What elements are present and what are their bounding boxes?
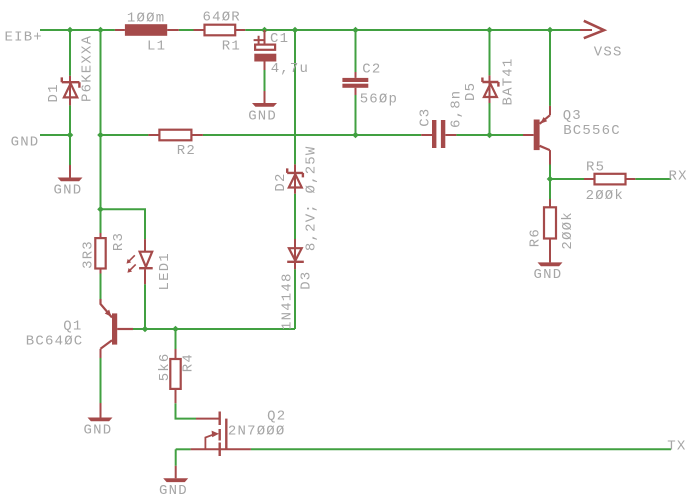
svg-text:1N4148: 1N4148	[280, 272, 296, 330]
svg-text:BC64ØC: BC64ØC	[26, 333, 84, 349]
svg-text:R5: R5	[586, 159, 605, 175]
svg-text:R3: R3	[111, 232, 127, 251]
svg-text:3R3: 3R3	[81, 240, 97, 269]
svg-text:EIB+: EIB+	[5, 30, 43, 46]
svg-text:GND: GND	[11, 135, 40, 151]
svg-text:8,2V; Ø,25W: 8,2V; Ø,25W	[304, 145, 320, 251]
svg-text:GND: GND	[248, 108, 277, 124]
svg-text:GND: GND	[84, 422, 113, 438]
svg-text:RX: RX	[669, 168, 688, 184]
svg-text:C3: C3	[417, 108, 433, 127]
svg-text:GND: GND	[534, 267, 563, 283]
svg-text:D3: D3	[298, 271, 314, 290]
svg-text:GND: GND	[54, 182, 83, 198]
svg-text:GND: GND	[159, 483, 188, 499]
svg-text:R4: R4	[181, 353, 197, 372]
svg-text:64ØR: 64ØR	[203, 9, 241, 25]
svg-text:4,7u: 4,7u	[271, 61, 309, 77]
svg-text:1ØØm: 1ØØm	[127, 10, 165, 26]
svg-text:5k6: 5k6	[157, 352, 173, 381]
svg-text:R2: R2	[177, 143, 196, 159]
svg-text:6,8n: 6,8n	[448, 90, 464, 128]
svg-text:56Øp: 56Øp	[360, 92, 398, 108]
svg-text:2ØØk: 2ØØk	[586, 188, 624, 204]
svg-text:BC556C: BC556C	[563, 123, 621, 139]
svg-text:Q1: Q1	[63, 319, 82, 335]
svg-text:D1: D1	[46, 83, 62, 102]
svg-text:VSS: VSS	[594, 45, 623, 61]
svg-text:2ØØk: 2ØØk	[560, 211, 576, 249]
svg-text:TX: TX	[667, 438, 686, 454]
svg-text:Q2: Q2	[267, 409, 286, 425]
svg-text:BAT41: BAT41	[501, 57, 517, 105]
svg-text:C2: C2	[362, 62, 381, 78]
svg-text:D5: D5	[463, 82, 479, 101]
svg-text:2N7ØØØ: 2N7ØØØ	[228, 423, 286, 439]
svg-text:R1: R1	[222, 38, 241, 54]
svg-text:R6: R6	[528, 228, 544, 247]
svg-text:L1: L1	[147, 38, 166, 54]
svg-text:D2: D2	[273, 172, 289, 191]
svg-text:Q3: Q3	[563, 108, 582, 124]
svg-text:P6KEXXA: P6KEXXA	[80, 35, 96, 102]
svg-text:LED1: LED1	[157, 252, 173, 290]
svg-text:C1: C1	[270, 31, 289, 47]
